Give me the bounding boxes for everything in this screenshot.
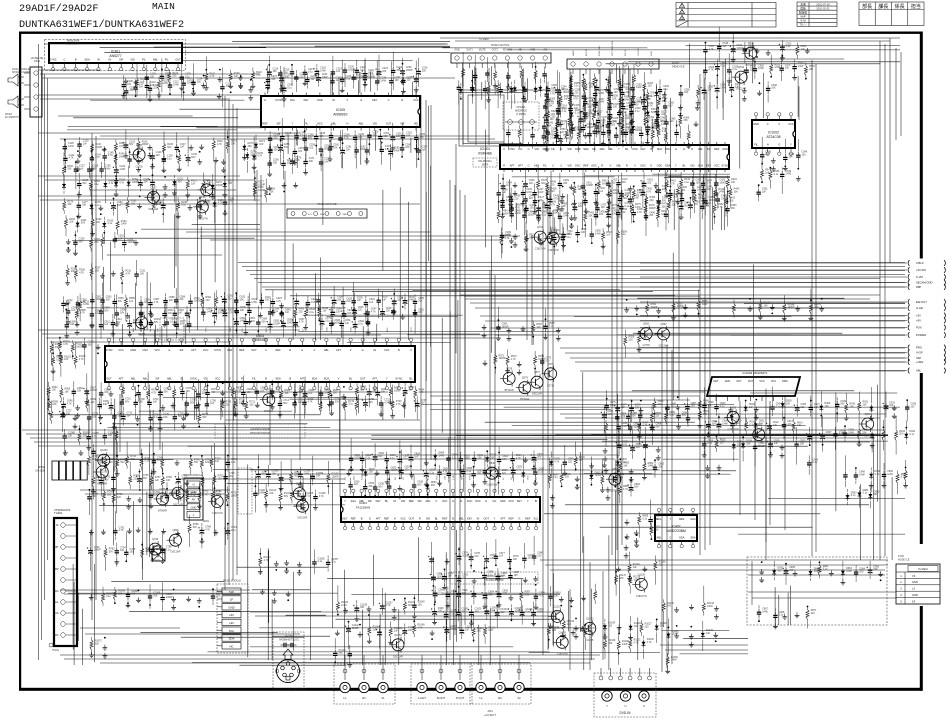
resistor R122 — [251, 68, 263, 89]
wire — [607, 76, 609, 99]
svg-text:1uF: 1uF — [422, 148, 427, 151]
capacitor C995 — [495, 573, 508, 610]
wire — [765, 389, 767, 560]
capacitor C590 — [188, 294, 201, 314]
svg-text:Q776: Q776 — [159, 488, 166, 491]
svg-text:0.1u: 0.1u — [390, 457, 395, 460]
diode D1024 — [603, 619, 616, 640]
capacitor C260 — [328, 140, 340, 161]
capacitor C965 — [867, 561, 880, 579]
node connector J452 AV-OUT jacks — [411, 655, 472, 704]
svg-text:1000P: 1000P — [142, 143, 149, 146]
capacitor C1099 — [311, 456, 324, 486]
svg-text:FIL: FIL — [304, 121, 308, 125]
svg-text:Q1078: Q1078 — [558, 631, 566, 634]
ground — [358, 624, 363, 637]
svg-text:+5V R/C: +5V R/C — [638, 47, 640, 56]
diode D954 — [857, 486, 869, 507]
svg-text:100: 100 — [477, 472, 482, 475]
resistor R559 — [624, 330, 635, 358]
wire — [512, 425, 806, 427]
capacitor C896 — [628, 411, 641, 436]
wire — [425, 192, 427, 381]
capacitor C324 — [556, 105, 568, 126]
ground — [571, 630, 576, 636]
svg-text:SIF: SIF — [277, 121, 281, 125]
ground — [509, 238, 514, 248]
ground — [401, 394, 406, 407]
resistor R317 — [593, 98, 596, 115]
capacitor C252 — [389, 123, 402, 158]
capacitor C675 — [180, 377, 192, 401]
svg-text:FIL: FIL — [754, 142, 758, 146]
wire — [410, 138, 412, 153]
capacitor C336 — [577, 111, 590, 132]
svg-text:0.1u: 0.1u — [525, 593, 530, 596]
svg-text:1/4W: 1/4W — [720, 87, 726, 90]
wire bus-v — [339, 390, 341, 497]
node connector To-Mainl P table — [896, 555, 940, 604]
capacitor C620 — [234, 292, 246, 313]
diode D165 — [103, 168, 115, 203]
svg-text:B-Y: B-Y — [302, 328, 304, 332]
svg-text:10K: 10K — [420, 136, 425, 139]
capacitor C526 — [703, 52, 715, 79]
capacitor C321 — [641, 86, 654, 122]
capacitor C454 — [618, 192, 630, 219]
transistor Q776 — [154, 488, 169, 513]
svg-text:1000P: 1000P — [95, 146, 102, 149]
wire — [628, 66, 630, 97]
svg-text:0.1u: 0.1u — [642, 517, 647, 520]
svg-text:4.7K: 4.7K — [633, 197, 638, 200]
wire — [581, 199, 583, 230]
ground — [560, 632, 565, 638]
svg-text:10K: 10K — [163, 416, 168, 419]
svg-text:0.1u: 0.1u — [94, 183, 99, 186]
svg-text:33K: 33K — [662, 205, 667, 208]
svg-text:OSD: OSD — [230, 327, 232, 332]
svg-text:0.1u: 0.1u — [732, 68, 737, 71]
capacitor C287 — [593, 79, 599, 106]
capacitor C343 — [542, 115, 554, 136]
capacitor C877 — [614, 394, 627, 420]
wire — [290, 295, 675, 297]
svg-text:HOSEI CE: HOSEI CE — [898, 559, 910, 562]
resistor R774 — [211, 481, 222, 503]
wire — [739, 73, 741, 169]
transistor Q1078 — [553, 631, 568, 656]
diode D191 — [76, 216, 88, 233]
svg-text:1uF: 1uF — [774, 442, 779, 445]
wire — [455, 144, 457, 353]
svg-text:AN5277: AN5277 — [109, 54, 121, 58]
wire net-PRO — [640, 347, 907, 349]
diode D917 — [732, 427, 744, 461]
resistor R880 — [653, 398, 664, 423]
resistor R423 — [726, 176, 737, 202]
capacitor C586 — [139, 296, 151, 323]
wire — [752, 42, 754, 83]
svg-text:CN-102B: CN-102B — [35, 470, 45, 473]
svg-text:C2735: C2735 — [100, 471, 108, 474]
svg-text:0.1u: 0.1u — [851, 494, 856, 497]
wire bus-h — [38, 94, 260, 96]
capacitor C696 — [60, 397, 73, 418]
capacitor C677 — [205, 380, 217, 405]
node connector J451 AV1 jacks — [334, 655, 395, 704]
svg-text:OSC: OSC — [640, 163, 646, 167]
ground — [184, 480, 189, 494]
wire bus-h — [238, 262, 905, 264]
wire bus-h — [44, 43, 448, 45]
wire — [744, 303, 905, 305]
svg-text:VID: VID — [567, 163, 571, 167]
wire — [225, 419, 420, 421]
ground — [134, 79, 139, 85]
svg-text:1/4W: 1/4W — [707, 605, 713, 608]
capacitor C353 — [546, 124, 558, 144]
ground — [109, 391, 114, 397]
capacitor C909 — [730, 412, 742, 433]
ground — [89, 595, 94, 601]
resistor R363 — [545, 129, 557, 152]
capacitor C459 — [680, 188, 684, 208]
ground — [604, 79, 609, 92]
wire bus-h — [80, 627, 180, 629]
svg-text:1000P: 1000P — [528, 214, 535, 217]
svg-text:33K: 33K — [785, 67, 790, 70]
capacitor C684 — [293, 382, 305, 414]
svg-text:220: 220 — [649, 214, 654, 217]
svg-text:100: 100 — [448, 575, 453, 578]
svg-text:0.1u: 0.1u — [549, 325, 554, 328]
svg-text:1uF: 1uF — [765, 172, 770, 175]
resistor R595 — [75, 302, 86, 326]
capacitor C464 — [500, 198, 505, 219]
wire — [481, 82, 483, 100]
wire — [591, 434, 888, 436]
capacitor C292 — [658, 80, 670, 102]
wire — [68, 126, 218, 128]
capacitor C691 — [374, 380, 387, 405]
svg-text:1uF: 1uF — [406, 134, 411, 137]
resistor R1131 — [809, 289, 822, 321]
svg-text:33K: 33K — [231, 142, 236, 145]
resistor R762 — [213, 472, 224, 491]
wire — [550, 171, 552, 199]
svg-text:G: G — [778, 142, 780, 146]
svg-text:4.7K: 4.7K — [264, 559, 269, 562]
wire bus-v — [542, 200, 544, 655]
ground — [584, 208, 589, 214]
svg-text:OUT: OUT — [748, 380, 754, 383]
resistor R207 — [90, 263, 101, 280]
capacitor C598 — [114, 294, 126, 326]
ground — [757, 82, 762, 95]
svg-text:V: V — [347, 98, 349, 102]
svg-text:VCC: VCC — [155, 348, 161, 352]
svg-text:1000P: 1000P — [166, 596, 173, 599]
svg-text:KEY: KEY — [376, 499, 381, 503]
ground — [238, 75, 243, 89]
ground — [742, 88, 747, 102]
svg-text:1uF: 1uF — [762, 191, 767, 194]
svg-text:C1815YW: C1815YW — [745, 64, 757, 67]
svg-text:DSC1AR: DSC1AR — [736, 88, 746, 91]
svg-text:50V: 50V — [120, 461, 125, 464]
capacitor C462 — [716, 192, 728, 209]
wire — [72, 594, 74, 650]
capacitor C899 — [702, 387, 714, 414]
svg-text:BP: BP — [55, 568, 59, 571]
svg-text:33K: 33K — [619, 577, 624, 580]
wire — [512, 176, 615, 178]
ground — [674, 607, 679, 613]
resistor R477 — [657, 189, 668, 216]
capacitor C1050 — [347, 645, 352, 667]
ground — [397, 478, 402, 499]
capacitor C307 — [592, 91, 605, 116]
svg-text:100: 100 — [655, 528, 660, 531]
capacitor C1101 — [253, 476, 266, 513]
svg-text:G: G — [518, 516, 520, 520]
wire — [271, 599, 273, 660]
capacitor C876 — [605, 390, 617, 419]
svg-text:10K: 10K — [396, 135, 401, 138]
capacitor C457 — [657, 194, 669, 211]
capacitor C187 — [198, 197, 210, 218]
svg-text:S-VM: S-VM — [916, 275, 923, 279]
wire net-SECAM-GND — [640, 282, 907, 284]
svg-text:VCC: VCC — [788, 122, 794, 126]
diode D949 — [869, 468, 881, 493]
svg-text:0.1u: 0.1u — [108, 222, 113, 225]
resistor R1084 — [633, 64, 636, 95]
capacitor C241 — [280, 67, 293, 107]
svg-text:1/4W: 1/4W — [599, 101, 605, 104]
resistor R746 — [161, 442, 164, 471]
ground — [89, 530, 94, 536]
ground — [560, 186, 565, 199]
svg-text:R: R — [241, 376, 243, 380]
wire — [183, 326, 300, 328]
wire routing-loop-3 — [463, 93, 523, 144]
resistor R741 — [104, 456, 115, 472]
svg-text:220: 220 — [358, 309, 363, 312]
capacitor C588 — [163, 293, 175, 318]
capacitor C1005 — [508, 604, 523, 621]
svg-text:220: 220 — [384, 135, 389, 138]
svg-text:C: C — [313, 348, 315, 352]
svg-text:220: 220 — [670, 120, 675, 123]
capacitor C251 — [378, 129, 390, 152]
capacitor C980 — [532, 536, 544, 565]
capacitor C543 — [760, 137, 772, 165]
svg-text:Q800: Q800 — [172, 529, 179, 532]
svg-text:VCC: VCC — [508, 499, 514, 503]
svg-text:AFT: AFT — [119, 376, 124, 380]
wire bus-h — [550, 569, 885, 571]
wire — [670, 98, 672, 182]
ground — [580, 626, 585, 632]
ground — [430, 630, 435, 640]
node connector P1002 — [567, 40, 685, 74]
svg-text:100: 100 — [66, 412, 71, 415]
capacitor C828 — [483, 455, 495, 485]
svg-text:1uF: 1uF — [394, 630, 399, 633]
svg-text:4.7K: 4.7K — [79, 272, 84, 275]
svg-text:10K: 10K — [81, 301, 86, 304]
capacitor C113 — [182, 76, 194, 101]
capacitor C895 — [616, 420, 628, 447]
svg-text:OUT2: OUT2 — [492, 49, 499, 52]
diode D928 — [819, 391, 831, 427]
capacitor C870 — [648, 500, 660, 530]
svg-text:Y: Y — [669, 517, 671, 521]
wire — [139, 334, 381, 336]
capacitor C545 — [783, 139, 795, 171]
wire — [135, 283, 137, 330]
ground — [560, 198, 565, 212]
wire bus-h — [60, 654, 600, 656]
resistor R172 — [185, 177, 197, 202]
svg-text:4.7K: 4.7K — [228, 201, 233, 204]
svg-text:1000P: 1000P — [287, 322, 294, 325]
svg-text:0.1u: 0.1u — [275, 389, 280, 392]
svg-text:REF: REF — [409, 499, 415, 503]
svg-text:220: 220 — [626, 91, 631, 94]
wire bus-h — [250, 274, 905, 276]
wire bus-h — [38, 329, 300, 331]
ground — [575, 476, 580, 490]
svg-text:FIL: FIL — [543, 163, 547, 167]
wire bus-v — [454, 185, 456, 635]
op-amp U IC402 NJM2233BM — [655, 508, 697, 548]
svg-text:100: 100 — [802, 154, 807, 157]
resistor R362 — [657, 124, 668, 145]
svg-text:P301: P301 — [34, 59, 41, 63]
svg-text:40 10M25TOA: 40 10M25TOA — [5, 116, 21, 119]
capacitor C745 — [152, 453, 164, 474]
svg-text:1000P: 1000P — [450, 628, 457, 631]
wire bus-h — [30, 437, 875, 439]
resistor R642 — [305, 302, 316, 326]
capacitor C519 — [730, 32, 744, 62]
ground — [102, 146, 107, 152]
wire — [298, 331, 560, 333]
wire — [338, 78, 340, 95]
ground — [569, 215, 574, 229]
svg-text:KEY: KEY — [304, 98, 309, 102]
svg-text:4.7K: 4.7K — [505, 237, 510, 240]
svg-text:FH: FH — [192, 498, 196, 502]
capacitor C668 — [99, 382, 111, 409]
capacitor C184 — [160, 198, 166, 223]
wire — [382, 190, 384, 271]
wire — [129, 611, 321, 613]
svg-text:4.7K: 4.7K — [384, 401, 389, 404]
wire net-POWER — [640, 334, 907, 336]
wire bus-h — [50, 341, 230, 343]
capacitor C382 — [663, 89, 675, 125]
capacitor C947 — [843, 455, 847, 487]
diode D162 — [62, 174, 66, 194]
svg-text:1/4W: 1/4W — [380, 79, 386, 82]
svg-text:1000P: 1000P — [231, 495, 238, 498]
svg-text:1/4W: 1/4W — [758, 67, 764, 70]
capacitor C801 — [349, 438, 362, 472]
svg-text:G: G — [650, 163, 652, 167]
svg-text:R-Y: R-Y — [157, 328, 159, 332]
capacitor C1067 — [160, 582, 173, 611]
capacitor C520 — [743, 42, 755, 63]
resistor R456 — [645, 194, 656, 221]
svg-text:H-GR: H-GR — [916, 306, 923, 310]
svg-text:MUTE: MUTE — [479, 49, 486, 52]
svg-text:1uF: 1uF — [91, 401, 96, 404]
capacitor C667 — [83, 374, 97, 405]
ground — [634, 534, 639, 547]
resistor R335 — [568, 110, 571, 132]
resistor R386 — [679, 113, 690, 138]
resistor R567 — [532, 321, 543, 345]
capacitor C729 — [87, 404, 99, 435]
svg-text:SIF: SIF — [400, 121, 404, 125]
svg-text:100: 100 — [786, 402, 791, 405]
svg-text:0.1u: 0.1u — [231, 529, 236, 532]
svg-text:C2735: C2735 — [547, 384, 555, 387]
svg-text:MAIN: MAIN — [152, 1, 175, 12]
ground — [111, 271, 116, 277]
wire — [456, 435, 888, 437]
transistor Q541 — [742, 42, 757, 66]
svg-text:1000P: 1000P — [216, 184, 223, 187]
svg-text:10K: 10K — [612, 98, 617, 101]
wire — [199, 382, 201, 400]
ground — [759, 561, 764, 582]
svg-text:50V: 50V — [694, 203, 699, 206]
resistor R430 — [573, 182, 584, 201]
wire — [184, 401, 186, 420]
capacitor C829 — [495, 467, 508, 495]
capacitor C420 — [690, 176, 702, 201]
capacitor C1085 — [63, 429, 76, 455]
svg-text:UF0F98/V29QF98: UF0F98/V29QF98 — [250, 428, 270, 431]
svg-text:DSC1AR: DSC1AR — [171, 551, 181, 554]
ground — [90, 323, 95, 329]
svg-text:OUT: OUT — [409, 516, 415, 520]
svg-text:Q577: Q577 — [534, 371, 541, 374]
resistor R940 — [857, 413, 869, 447]
ground — [218, 69, 223, 82]
svg-text:10K: 10K — [104, 391, 109, 394]
resistor R1052 — [258, 548, 271, 575]
svg-text:220: 220 — [636, 446, 641, 449]
svg-text:SDA: SDA — [275, 376, 281, 380]
svg-text:P-OUT: P-OUT — [456, 696, 464, 700]
capacitor C596 — [90, 307, 102, 328]
svg-text:1000P: 1000P — [368, 76, 375, 79]
svg-text:SAVE: SAVE — [572, 50, 575, 56]
capacitor C266 — [400, 136, 412, 158]
svg-text:VID: VID — [426, 516, 430, 520]
svg-text:SDA: SDA — [320, 213, 325, 216]
svg-text:1uF: 1uF — [801, 48, 806, 51]
svg-text:1/4W: 1/4W — [304, 472, 310, 475]
svg-text:100: 100 — [386, 310, 391, 313]
capacitor C388 — [506, 126, 510, 150]
